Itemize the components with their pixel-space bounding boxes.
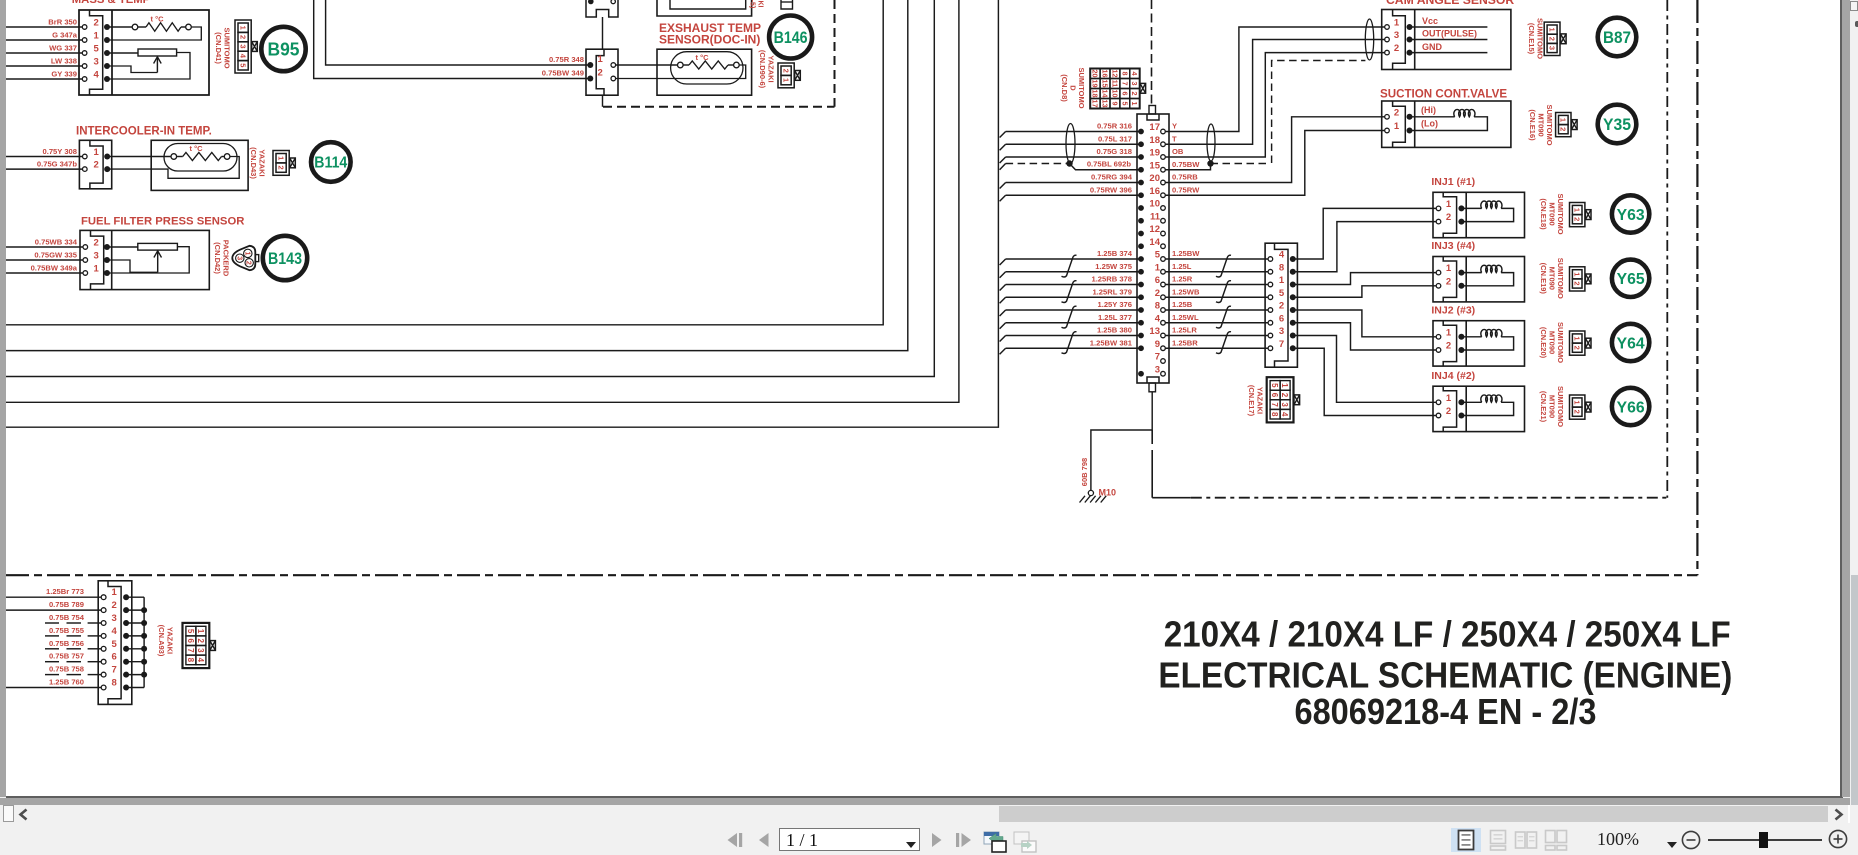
svg-text:1: 1: [1573, 208, 1582, 212]
wire CN.E17 pin 8 to injector: [1294, 222, 1436, 272]
svg-text:1.25B: 1.25B: [1172, 300, 1193, 309]
svg-text:0.75Y 308: 0.75Y 308: [43, 147, 78, 156]
svg-text:B114: B114: [314, 155, 347, 172]
svg-text:1.25WB: 1.25WB: [1172, 287, 1200, 296]
pin grid (CN.E19): [1570, 267, 1585, 291]
svg-text:7: 7: [1155, 352, 1160, 363]
fuel filter sensor outline: [80, 230, 209, 289]
next view icon (disabled): [1013, 829, 1038, 853]
svg-text:210X4 / 210X4 LF / 250X4 / 250: 210X4 / 210X4 LF / 250X4 / 250X4 LF: [1164, 614, 1731, 655]
svg-text:(CN.E18): (CN.E18): [1539, 198, 1548, 230]
svg-text:1: 1: [1446, 327, 1452, 338]
svg-text:4: 4: [1130, 72, 1139, 76]
svg-text:(CN.E19): (CN.E19): [1539, 263, 1548, 295]
svg-text:18: 18: [1091, 90, 1100, 98]
svg-text:7: 7: [112, 665, 117, 676]
inner dashed enclosure bottom: [1151, 430, 1153, 462]
svg-text:20: 20: [1091, 70, 1100, 78]
pin grid CN.E16: [1556, 113, 1571, 137]
CN.D8 pin 1: [1138, 269, 1144, 275]
cam sensor pin 2 GND: [1385, 50, 1390, 55]
svg-text:20: 20: [1149, 173, 1160, 184]
fuel filter potentiometer: [138, 243, 178, 250]
svg-text:B143: B143: [268, 249, 302, 268]
page number box: [779, 828, 920, 851]
vertical scrollbar top button: [1850, 1, 1858, 11]
svg-text:0.75WB 334: 0.75WB 334: [35, 238, 78, 247]
svg-text:5: 5: [1270, 383, 1279, 388]
svg-text:0.75RW: 0.75RW: [1172, 185, 1200, 194]
previous page button: [757, 832, 771, 848]
svg-text:0.75B 758: 0.75B 758: [49, 665, 84, 674]
wire 0.75G 318 into bus: [1006, 156, 1139, 158]
CN.D8 pin 7: [1161, 359, 1166, 364]
svg-text:17: 17: [1149, 122, 1160, 133]
suction valve pin 2: [1385, 115, 1390, 120]
wire 0.75BW 349a to fuel-filter pin 1: [6, 272, 83, 274]
CN.D8 pin 14: [1138, 243, 1144, 249]
svg-text:GND: GND: [1422, 42, 1443, 52]
svg-text:1: 1: [1573, 336, 1582, 340]
svg-text:1: 1: [1573, 400, 1582, 404]
svg-text:(Lo): (Lo): [1421, 119, 1438, 129]
svg-text:t °C: t °C: [190, 144, 204, 153]
svg-text:2: 2: [1446, 406, 1451, 417]
wire GY 339 to mass-temp pin 4: [6, 78, 82, 80]
svg-text:11: 11: [1110, 80, 1119, 88]
partial pin grid top: [781, 0, 793, 9]
zoom percentage: [1597, 829, 1639, 850]
wire 1.25B to CN.E17: [1166, 309, 1269, 311]
svg-text:KI: KI: [757, 1, 764, 8]
connector label SUMITOMO (CN.D41): [214, 27, 232, 68]
wire 0.75GW 335 to fuel-filter pin 3: [6, 259, 83, 261]
inner dashed enclosure right side: [1666, 0, 1668, 498]
zoom slider: [1708, 839, 1822, 841]
wire 0.75BW 349 from top: [314, 0, 589, 79]
svg-text:9: 9: [1155, 339, 1160, 350]
bus wire 4 from top edge to left edge: [6, 0, 959, 402]
svg-text:BrR 350: BrR 350: [48, 18, 77, 27]
last page button: [954, 832, 974, 848]
wire G 347a to mass-temp pin 1: [6, 39, 82, 41]
wire 1.25B 380 into bus: [1006, 335, 1139, 337]
svg-text:1.25L 377: 1.25L 377: [1098, 313, 1132, 322]
svg-text:B87: B87: [1603, 29, 1631, 47]
wire 1.25Y 376 into bus: [1006, 309, 1139, 311]
svg-text:(CN.D43): (CN.D43): [249, 147, 258, 179]
viewer gray band right of page: [1842, 0, 1850, 797]
svg-text:(Hi): (Hi): [1421, 105, 1436, 115]
horizontal scrollbar row: [0, 805, 1858, 823]
svg-text:16: 16: [1100, 70, 1109, 78]
svg-text:MASS & TEMP: MASS & TEMP: [72, 0, 151, 6]
svg-text:2: 2: [245, 261, 252, 265]
wire 1.25WL to CN.E17: [1166, 322, 1269, 324]
pin grid CN.E15: [1544, 22, 1560, 55]
pin grid (CN.E20): [1570, 331, 1585, 355]
svg-text:1: 1: [238, 26, 247, 30]
svg-text:1.25BW 381: 1.25BW 381: [1090, 338, 1133, 347]
svg-text:19: 19: [1149, 148, 1160, 159]
wire CN.E17 pin 4 to injector: [1294, 208, 1436, 259]
cam sensor outline: [1382, 10, 1511, 70]
svg-text:OB: OB: [1172, 147, 1184, 156]
svg-text:5: 5: [238, 63, 247, 67]
svg-text:2: 2: [196, 638, 205, 643]
toolbar: [0, 823, 1858, 855]
8-pin connector CN.E17 body: [1265, 243, 1297, 367]
injector INJ1 (#1) pins: [1436, 206, 1441, 211]
svg-text:2: 2: [1279, 301, 1284, 312]
svg-text:2: 2: [112, 600, 117, 611]
CN.A93 pin 2 wire 0.75B 789: [6, 609, 101, 611]
wire 1.25BW 381 into bus: [1006, 347, 1139, 349]
svg-text:Y35: Y35: [1603, 116, 1631, 134]
exhaust sensor body: [657, 49, 752, 95]
zoom in button: [1827, 828, 1849, 850]
upper cut-off connector CN.D90-5: [586, 0, 618, 17]
connector circle B143: [263, 236, 307, 280]
vertical scrollbar glyph fragment: [1855, 21, 1858, 27]
CN.A93 pin 5 wire 0.75B 756: [45, 648, 59, 650]
cam sensor pin 3 OUT(PULSE): [1385, 37, 1390, 42]
pin grid CN.E17 2x4: [1267, 377, 1294, 422]
CN.E17 pin 8: [1268, 269, 1273, 274]
ground wire label 60B 798: [1080, 458, 1089, 486]
wire Y to cam sensor: [1166, 27, 1385, 132]
bus wire 2 from top edge to left edge: [6, 0, 908, 351]
wire 1.25L 377 into bus: [1006, 322, 1139, 324]
svg-text:1: 1: [1547, 28, 1556, 32]
svg-text:16: 16: [1149, 186, 1160, 197]
svg-text:19: 19: [1091, 80, 1100, 88]
shield ellipse on sensor wires left: [1066, 124, 1075, 164]
svg-text:(CN.D42): (CN.D42): [213, 242, 222, 274]
svg-text:4: 4: [112, 626, 118, 637]
svg-text:1: 1: [94, 31, 100, 42]
svg-text:6: 6: [1279, 313, 1284, 324]
svg-text:0.75B 756: 0.75B 756: [49, 639, 84, 648]
wire BrR 350 to mass-temp pin 2: [6, 26, 82, 28]
svg-text:ELECTRICAL SCHEMATIC (ENGINE): ELECTRICAL SCHEMATIC (ENGINE): [1158, 655, 1732, 696]
svg-text:1: 1: [1280, 383, 1289, 388]
injector INJ2 (#3) coil: [1463, 336, 1481, 338]
svg-text:3: 3: [1280, 402, 1289, 407]
svg-text:-5): -5): [749, 0, 756, 8]
svg-text:4: 4: [196, 658, 205, 663]
intercooler connector: [79, 140, 111, 189]
svg-text:(CN.E20): (CN.E20): [1539, 327, 1548, 359]
connector label SUMITOMO (CN.E15): [1527, 18, 1545, 59]
page bottom border: [6, 796, 1843, 798]
CN.D8 pin 2: [1138, 294, 1144, 300]
horizontal scrollbar left arrow: [17, 808, 31, 821]
wire 0.75BW tap from pin 15: [1166, 164, 1211, 170]
injector INJ1 (#1) coil: [1463, 207, 1481, 209]
dashed enclosure around exhaust sensors: [602, 95, 604, 107]
svg-text:0.75BL 692b: 0.75BL 692b: [1087, 160, 1132, 169]
injector INJ3 (#4) pins: [1436, 270, 1441, 275]
svg-text:2: 2: [238, 35, 247, 39]
svg-text:Y64: Y64: [1617, 335, 1645, 352]
svg-text:7: 7: [1279, 339, 1284, 350]
zoom dropdown arrow: [1666, 841, 1678, 849]
svg-text:5: 5: [1120, 102, 1129, 106]
left window edge strip: [0, 0, 6, 797]
pin grid CN.D8 overview 5x4: [1090, 69, 1140, 109]
CN.D8 pin 3: [1138, 371, 1144, 377]
CN.D8 pin 19: [1138, 154, 1144, 160]
connector circle Y64: [1612, 324, 1649, 361]
svg-text:M10: M10: [1099, 488, 1117, 498]
svg-text:13: 13: [1100, 100, 1109, 108]
svg-text:11: 11: [1150, 211, 1161, 222]
svg-text:18: 18: [1149, 135, 1160, 146]
svg-text:3: 3: [94, 57, 99, 68]
intercooler sensor body: [151, 140, 248, 190]
svg-text:1: 1: [243, 251, 250, 255]
wire 0.75R 316 into bus: [1006, 131, 1139, 133]
svg-text:2: 2: [1573, 281, 1582, 285]
svg-text:7: 7: [1120, 82, 1129, 86]
svg-text:0.75R 348: 0.75R 348: [549, 55, 584, 64]
svg-text:7: 7: [186, 648, 195, 653]
injector INJ1 (#1) outline: [1433, 192, 1525, 237]
CN.D8 pin 8: [1138, 307, 1144, 313]
wire 1.25R to CN.E17: [1166, 284, 1269, 286]
svg-text:2: 2: [94, 18, 99, 29]
connector label SUMITOMO D (CN.D8): [1060, 67, 1086, 108]
svg-text:14: 14: [1100, 90, 1109, 98]
outer dashed enclosure right side: [1696, 0, 1698, 575]
svg-text:1.25B 380: 1.25B 380: [1097, 326, 1132, 335]
svg-text:B146: B146: [774, 29, 808, 47]
svg-text:1: 1: [1446, 199, 1452, 210]
svg-text:0.75G 318: 0.75G 318: [1097, 147, 1132, 156]
shield ellipse on sensor wires right: [1207, 124, 1215, 161]
svg-text:LW 338: LW 338: [51, 57, 77, 66]
svg-text:1.25BW: 1.25BW: [1172, 249, 1200, 258]
svg-text:0.75BW 349a: 0.75BW 349a: [31, 264, 78, 273]
wire WG 337 to mass-temp pin 5: [6, 52, 82, 54]
svg-text:1: 1: [598, 54, 604, 65]
connector label SUMITOMO MT090 (CN.E18): [1539, 193, 1565, 234]
svg-text:1: 1: [1446, 263, 1452, 274]
svg-text:8: 8: [112, 678, 117, 689]
svg-text:4: 4: [1279, 250, 1285, 261]
svg-text:1: 1: [781, 78, 790, 82]
svg-text:7: 7: [1270, 402, 1279, 407]
wire CN.E17 pin 1 to injector: [1294, 273, 1436, 285]
wire from CN.D8 to ground M10: [1151, 392, 1153, 430]
wire 1.25RB 378 into bus: [1006, 284, 1139, 286]
svg-text:(CN.D8): (CN.D8): [1060, 74, 1069, 102]
svg-text:2: 2: [598, 68, 603, 79]
vertical scrollbar track: [1850, 0, 1858, 823]
svg-text:CAM ANGLE SENSOR: CAM ANGLE SENSOR: [1386, 0, 1514, 7]
CN.D8 pin 16: [1138, 192, 1144, 198]
svg-text:5: 5: [1155, 250, 1161, 261]
svg-text:10: 10: [1149, 199, 1160, 210]
suction valve pin 1: [1385, 128, 1390, 133]
svg-text:1: 1: [1130, 102, 1139, 106]
svg-text:1: 1: [1394, 18, 1400, 29]
svg-text:3: 3: [196, 648, 205, 653]
svg-text:1.25RB 378: 1.25RB 378: [1091, 275, 1132, 284]
svg-text:9: 9: [1110, 102, 1119, 106]
wire 1.25BW to CN.E17: [1166, 258, 1269, 260]
first page button: [726, 832, 744, 848]
svg-text:8: 8: [1270, 412, 1279, 417]
twisted-wire slashes right of CN.D8: [1216, 255, 1231, 277]
CN.D8 pin 12: [1138, 231, 1144, 237]
svg-text:4: 4: [1155, 313, 1161, 324]
svg-text:(CN.D90-6): (CN.D90-6): [758, 50, 767, 89]
svg-text:(CN.A93): (CN.A93): [157, 625, 166, 657]
svg-text:0.75B 789: 0.75B 789: [49, 600, 84, 609]
svg-text:(CN.E16): (CN.E16): [1528, 109, 1537, 141]
svg-text:2: 2: [1394, 107, 1399, 118]
svg-text:2: 2: [276, 166, 285, 170]
connector circle Y63: [1612, 195, 1649, 232]
exhaust sensor connector CN.D90-6: [586, 49, 618, 95]
CN.E17 pin 1: [1268, 282, 1273, 287]
svg-text:1: 1: [112, 587, 118, 598]
next page button: [930, 832, 944, 848]
connector circle Y66: [1612, 388, 1649, 425]
connector circle B114: [311, 142, 351, 182]
svg-text:4: 4: [1280, 412, 1289, 417]
outer dashed enclosure bottom: [6, 574, 1697, 576]
single page layout (selected): [1451, 828, 1481, 852]
svg-text:1: 1: [1446, 393, 1452, 404]
CN.A93 common bus: [143, 597, 145, 687]
svg-text:17: 17: [1091, 100, 1100, 108]
connector circle Y65: [1612, 260, 1649, 297]
svg-text:1.25RL 379: 1.25RL 379: [1092, 287, 1132, 296]
CN.D8 pin 18: [1138, 141, 1144, 147]
wire T to cam sensor: [1166, 40, 1385, 145]
wire CN.E17 pin 3 to injector: [1294, 336, 1436, 403]
wire 0.75G 347b to intercooler pin 2: [6, 168, 83, 170]
shield ellipse at cam sensor: [1365, 19, 1373, 60]
wire OB to cam sensor: [1166, 53, 1385, 157]
wire 0.75RB to suction valve pin 2: [1166, 117, 1385, 183]
CN.D8 pin 15: [1138, 167, 1144, 173]
svg-text:2: 2: [1446, 341, 1451, 352]
injector INJ3 (#4) outline: [1433, 257, 1525, 302]
svg-text:14: 14: [1149, 237, 1160, 248]
wire 1.25LR to CN.E17: [1166, 335, 1269, 337]
svg-text:1.25L: 1.25L: [1172, 262, 1192, 271]
connector label YAZAKI (CN.E17): [1247, 385, 1265, 417]
CN.D8 pin 20: [1138, 180, 1144, 186]
injector INJ2 (#3) outline: [1433, 321, 1525, 366]
svg-text:INTERCOOLER-IN TEMP.: INTERCOOLER-IN TEMP.: [76, 126, 212, 138]
svg-text:5: 5: [186, 629, 195, 634]
connector label YAZAKI (CN.A93): [157, 625, 175, 657]
CN.D8 pin 10: [1138, 205, 1144, 211]
svg-text:T: T: [1172, 134, 1177, 143]
wire CN.E17 pin 7 to injector: [1294, 348, 1436, 415]
svg-text:5: 5: [112, 639, 118, 650]
svg-text:(CN.E21): (CN.E21): [1539, 391, 1548, 423]
svg-text:5: 5: [1279, 288, 1285, 299]
svg-text:1: 1: [196, 629, 205, 634]
page number text: [786, 830, 818, 851]
twisted-wire slashes left of CN.D8: [1062, 255, 1077, 277]
wire CN.E17 pin 2 to injector: [1294, 310, 1436, 337]
svg-text:0.75RW 396: 0.75RW 396: [1090, 185, 1132, 194]
pin grid CN.D41: [235, 20, 251, 73]
svg-text:6: 6: [1155, 275, 1160, 286]
svg-text:2: 2: [1446, 276, 1451, 287]
svg-text:INJ2 (#3): INJ2 (#3): [1431, 304, 1475, 316]
svg-text:WG 337: WG 337: [49, 44, 77, 53]
20-pin connector CN.D8 body: [1137, 114, 1169, 383]
svg-text:4: 4: [94, 70, 100, 81]
CN.A93 pin 1 wire 1.25Br 773: [6, 596, 101, 598]
CN.E17 pin 5: [1268, 295, 1273, 300]
suction valve outline: [1382, 101, 1511, 147]
mass-temp thermistor t C: [110, 26, 133, 28]
svg-text:12: 12: [1149, 224, 1160, 235]
svg-text:6: 6: [112, 652, 117, 663]
bus wire 3 from top edge to left edge: [6, 0, 934, 377]
wire 1.25L to CN.E17: [1166, 271, 1269, 273]
svg-text:68069218-4 EN - 2/3: 68069218-4 EN - 2/3: [1295, 691, 1597, 732]
svg-text:1.25Y 376: 1.25Y 376: [1098, 300, 1133, 309]
svg-text:8: 8: [186, 658, 195, 663]
page dropdown arrow: [905, 841, 917, 849]
wire 1.25WB to CN.E17: [1166, 296, 1269, 298]
svg-text:6: 6: [186, 638, 195, 643]
wire 0.75Y 308 to intercooler pin 1: [6, 156, 83, 158]
svg-text:3: 3: [1394, 30, 1399, 41]
CN.E17 pin 2: [1268, 308, 1273, 313]
svg-text:1.25LR: 1.25LR: [1172, 326, 1197, 335]
bottom connector CN.A93 body: [98, 581, 132, 705]
upper cut-off sensor body: [657, 0, 752, 16]
svg-text:GY 339: GY 339: [51, 70, 77, 79]
CN.A93 pin 3 wire 0.75B 754: [45, 622, 59, 624]
connector circle Y35: [1598, 105, 1637, 144]
CN.D8 pin 4: [1138, 320, 1144, 326]
CN.E17 pin 6: [1268, 320, 1273, 325]
vertical scrollbar thumb: [1851, 575, 1858, 820]
ground symbol M10: [1088, 490, 1093, 495]
svg-text:8: 8: [1155, 301, 1160, 312]
svg-text:2: 2: [1130, 92, 1139, 96]
svg-text:4: 4: [238, 54, 247, 59]
cam sensor pin 1 Vcc: [1385, 25, 1390, 30]
remnant label top right of B146: [749, 0, 764, 8]
svg-text:SUCTION CONT.VALVE: SUCTION CONT.VALVE: [1380, 88, 1507, 101]
svg-text:3: 3: [94, 251, 99, 262]
svg-text:0.75RB: 0.75RB: [1172, 173, 1198, 182]
pin grid CN.D90-6: [778, 63, 794, 88]
page right border: [1840, 0, 1842, 797]
connector circle B87: [1598, 18, 1637, 57]
triangular connector PACKERD: [232, 246, 255, 270]
svg-text:2: 2: [94, 238, 99, 249]
svg-text:6: 6: [1120, 92, 1129, 96]
svg-text:SENSOR(DOC-IN): SENSOR(DOC-IN): [659, 33, 760, 47]
svg-text:INJ4 (#2): INJ4 (#2): [1431, 370, 1475, 382]
wire 1.25RL 379 into bus: [1006, 296, 1139, 298]
svg-text:OUT(PULSE): OUT(PULSE): [1422, 29, 1477, 39]
